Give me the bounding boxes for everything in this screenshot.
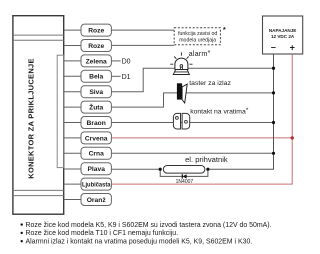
- svg-text:D0: D0: [122, 58, 131, 65]
- node junction taster/minus: [272, 91, 275, 94]
- dashed box funkcija zavisi od modela uredjaja: [174, 25, 226, 45]
- wire Siva to alarm: [111, 68, 273, 92]
- label Siva: [81, 86, 111, 98]
- svg-text:alarm*: alarm*: [189, 49, 211, 58]
- wire Plava to el. prihvatnik: [111, 168, 160, 170]
- svg-text:Bela: Bela: [89, 74, 103, 81]
- svg-text:KONEKTOR ZA PRIKLJUCENJE: KONEKTOR ZA PRIKLJUCENJE: [27, 58, 36, 178]
- napajanje power supply box: [263, 16, 303, 54]
- wire D1 stub: [111, 75, 120, 77]
- node junction alarm/minus: [272, 67, 275, 70]
- svg-text:–: –: [271, 42, 276, 52]
- label Braon: [81, 117, 111, 129]
- svg-text:kontakt na vratima*: kontakt na vratima*: [190, 107, 249, 115]
- label Plava: [81, 163, 111, 175]
- wire Crvena red: [111, 137, 292, 139]
- svg-text:Ljubičasta: Ljubičasta: [82, 182, 111, 189]
- svg-text:*: *: [223, 25, 226, 34]
- svg-text:Oranž: Oranž: [87, 197, 107, 204]
- svg-text:Crvena: Crvena: [85, 135, 108, 142]
- svg-text:Roze: Roze: [88, 43, 104, 50]
- svg-text:Alarmni izlaz i kontakt na vra: Alarmni izlaz i kontakt na vratima posed…: [26, 238, 253, 245]
- wire Ljubicasta red: [111, 54, 292, 184]
- label Zuta: [81, 101, 111, 113]
- svg-text:el. prihvatnik: el. prihvatnik: [185, 155, 228, 164]
- label Roze 2: [81, 40, 111, 52]
- label Oranz: [81, 194, 111, 206]
- svg-text:Žuta: Žuta: [89, 103, 103, 112]
- el. prihvatnik pill body: [163, 155, 228, 173]
- taster za izlaz door icon: [177, 83, 187, 103]
- wire Braon to kontakt: [111, 122, 273, 124]
- note line 3: [21, 238, 253, 245]
- kontakt na vratima icon: [173, 113, 189, 129]
- node junction kontakt/minus: [272, 121, 275, 124]
- label Roze 1: [81, 24, 111, 36]
- diode 1N4007: [176, 174, 194, 185]
- alarm siren icon: [170, 52, 192, 74]
- node junction pill left: [159, 168, 162, 171]
- svg-text:taster za izlaz: taster za izlaz: [189, 80, 231, 87]
- label Crvena: [81, 132, 111, 144]
- wire Zuta to taster: [111, 93, 273, 107]
- label Ljubicasta: [81, 178, 111, 190]
- svg-text:NAPAJANJE: NAPAJANJE: [269, 28, 296, 33]
- svg-text:Roze žice kod modela T10 i CF1: Roze žice kod modela T10 i CF1 nemaju fu…: [26, 230, 179, 237]
- wire Crna: [111, 152, 273, 154]
- svg-text:+: +: [290, 43, 295, 53]
- node junction pill right: [206, 168, 209, 171]
- svg-text:Roze: Roze: [88, 28, 104, 35]
- node junction crvena/plus red: [291, 136, 294, 139]
- svg-text:Siva: Siva: [89, 89, 103, 96]
- svg-text:Braon: Braon: [87, 120, 106, 127]
- svg-text:funkcija zavisi od: funkcija zavisi od: [178, 31, 217, 37]
- wire Roze2 to dashed box: [111, 44, 174, 46]
- wire D0 stub: [111, 60, 120, 62]
- svg-text:D1: D1: [122, 74, 131, 81]
- svg-text:Roze žice kod modela K5, K9 i: Roze žice kod modela K5, K9 i S602EM su …: [26, 222, 272, 229]
- wire Roze1 to dashed box: [111, 29, 174, 31]
- wire stubs connector to labels: [64, 30, 81, 199]
- node junction crna/minus: [272, 152, 275, 155]
- svg-text:Plava: Plava: [87, 166, 105, 173]
- svg-text:Crna: Crna: [89, 151, 105, 158]
- wire minus bus vertical: [208, 54, 274, 169]
- svg-text:modela uredjaja: modela uredjaja: [179, 37, 216, 43]
- svg-text:12 VDC 2A: 12 VDC 2A: [271, 34, 295, 39]
- connector J1 KONEKTOR ZA PRIKLJUCENJE: [13, 16, 64, 215]
- diode branch wire: [160, 169, 208, 176]
- label Crna: [81, 147, 111, 159]
- note line 2: [21, 230, 179, 237]
- label Zelena: [81, 55, 111, 67]
- svg-text:Zelena: Zelena: [86, 58, 107, 65]
- label Bela: [81, 70, 111, 82]
- note line 1: [21, 222, 272, 229]
- svg-text:1N4007: 1N4007: [176, 179, 194, 185]
